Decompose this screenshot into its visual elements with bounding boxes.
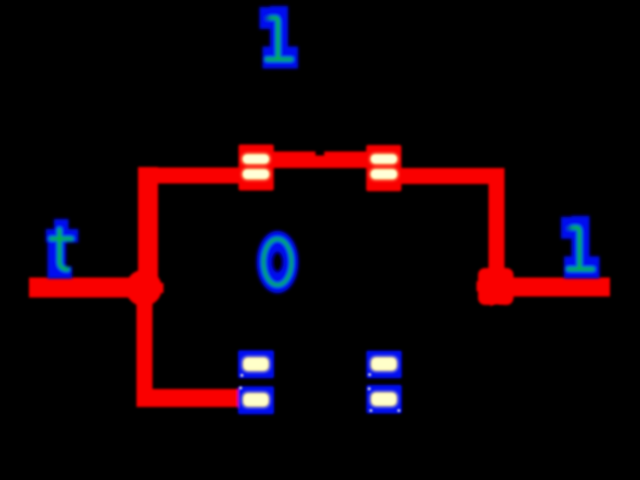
pad glow: top-right contact lower: [370, 169, 398, 180]
wire: left riser vertical from junction A up to switch: [138, 167, 158, 289]
pad glow: top-right contact upper: [370, 154, 398, 165]
label: right value 1: [561, 216, 600, 278]
label: net name t: [46, 219, 79, 279]
pad core: top-left contact lower: [244, 170, 269, 178]
wire: bottom horizontal to lower-left open contact: [137, 389, 240, 407]
pad glow: top-left contact lower: [242, 169, 270, 180]
switch SW1 open contact lower-right pad blocks: [366, 351, 402, 379]
node B junction dot: [477, 267, 516, 307]
pad glow: lower-left open contact lower: [242, 392, 269, 407]
pad glow: top-left contact upper: [242, 154, 270, 165]
pad glow: lower-right open contact lower: [370, 392, 397, 407]
wire: vertical drop from junction A down: [137, 288, 153, 407]
pad core: lower-left open contact lower: [244, 394, 267, 405]
wire: right drop vertical to junction B: [489, 168, 505, 287]
switch SW1 closed contact right body: [366, 145, 401, 191]
wire: horizontal out of top-right contact: [399, 168, 503, 184]
label: switch state 0: [257, 231, 299, 294]
switch SW1 open contact lower-left pad blocks: [238, 350, 274, 378]
switch SW1 closed contact left body: [239, 145, 274, 191]
pad glow: lower-right open contact upper: [370, 357, 397, 372]
wire: horizontal into top-left contact: [139, 168, 240, 184]
pad core: top-left contact upper: [244, 155, 269, 163]
pad core: top-right contact lower: [372, 170, 397, 178]
pad core: lower-right open contact lower: [372, 394, 395, 405]
pad glow: lower-left open contact upper: [242, 357, 269, 372]
corner handle dots on open contacts: [241, 374, 244, 377]
wire: right output horizontal segment: [488, 278, 610, 297]
notch at bottom of junction B: [489, 305, 506, 322]
pad core: lower-left open contact upper: [244, 359, 267, 370]
pad core: lower-right open contact upper: [372, 359, 395, 370]
pad core: top-right contact upper: [372, 155, 397, 163]
wire: switch bridge bar between closed contacts: [270, 152, 368, 169]
node A junction dot: [125, 269, 164, 308]
label: top value 1: [260, 6, 299, 69]
wire: left input horizontal segment: [29, 278, 151, 298]
notch in bridge bar (switch lever mark): [316, 145, 325, 156]
